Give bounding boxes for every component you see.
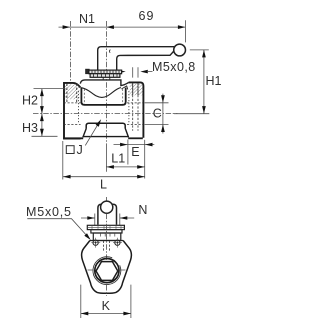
ball chamber tub — [81, 87, 125, 105]
stem washer plate — [89, 70, 122, 74]
svg-text:M5x0,5: M5x0,5 — [26, 205, 72, 219]
left port thread hidden lines — [67, 84, 77, 103]
square boss J — [86, 123, 125, 129]
dimension C — [145, 103, 169, 125]
svg-text:M5x0,8: M5x0,8 — [152, 60, 196, 74]
right port thread hatch — [130, 84, 143, 96]
dimension N — [95, 214, 120, 226]
label square J — [66, 146, 74, 154]
right port block — [129, 82, 144, 137]
right port hole hidden lines — [127, 103, 143, 125]
washer plate A end view — [87, 225, 124, 229]
svg-text:E: E — [131, 145, 139, 159]
right port M5 hole lines — [132, 83, 134, 95]
handle lever — [98, 47, 175, 70]
svg-text:J: J — [77, 143, 83, 157]
dimension M5x0,8 — [133, 67, 138, 77]
node hex centerline stubs — [88, 269, 126, 271]
left port thread hatch — [65, 84, 80, 99]
left port block — [64, 83, 81, 139]
dimension N1 and 69 line — [59, 26, 185, 28]
dimension H2 — [34, 88, 66, 90]
nut C end view — [93, 233, 121, 241]
wire extension line right of 69 — [185, 20, 187, 42]
handle ball end view — [101, 201, 113, 213]
body bottom edge right — [128, 137, 143, 139]
dimension L1 — [105, 146, 107, 172]
boss bottom edge — [83, 136, 129, 138]
wire centerline bottom view axis upper stub — [106, 197, 108, 202]
handle ball end — [174, 44, 186, 56]
nut hatch ticks — [92, 70, 119, 77]
body top platform — [80, 80, 128, 86]
wire centerline bottom view axis — [106, 214, 108, 296]
port boss circles — [93, 257, 121, 285]
washer plate B end view — [91, 230, 122, 233]
svg-text:H2: H2 — [22, 94, 38, 108]
handle bracket end view — [98, 204, 117, 225]
svg-text:H3: H3 — [22, 121, 38, 135]
dimension H3 — [32, 135, 58, 137]
svg-text:L: L — [100, 177, 107, 191]
hex socket — [96, 262, 118, 281]
dimension E — [114, 144, 155, 146]
svg-text:N: N — [138, 203, 147, 217]
wire centerline stem axis — [105, 21, 107, 146]
dimension H1 — [190, 49, 209, 51]
svg-text:K: K — [102, 299, 111, 313]
stem — [103, 77, 110, 80]
packing nut — [90, 74, 120, 78]
handle bend mark — [109, 50, 110, 53]
hidden stem hole lines — [104, 241, 110, 252]
wire centerline left port axis — [69, 21, 71, 82]
dimension K — [81, 285, 131, 318]
svg-text:N1: N1 — [79, 12, 95, 26]
boss flare sides — [83, 128, 129, 137]
dimension L — [62, 141, 64, 180]
wire centerline horizontal body axis — [33, 113, 178, 115]
ball silhouette curve — [82, 88, 121, 98]
mounting screw hole left — [93, 240, 98, 245]
svg-text:C: C — [153, 106, 162, 120]
hidden tub inner lines — [84, 89, 122, 104]
svg-text:L1: L1 — [111, 152, 125, 166]
svg-text:H1: H1 — [206, 74, 222, 88]
body bottom edge left — [63, 137, 83, 139]
svg-text:69: 69 — [139, 9, 155, 23]
seat flap — [121, 86, 127, 90]
left port hole hidden lines — [64, 103, 81, 125]
hidden ball diameter lines — [79, 91, 129, 123]
mounting screw hole right — [115, 240, 120, 245]
body shield outline — [82, 241, 132, 294]
stem washer tab — [86, 69, 90, 74]
